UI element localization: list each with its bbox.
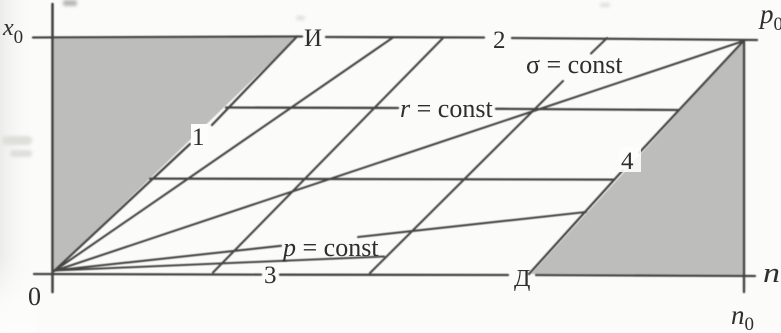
left margin bottom white fade (0, 255, 36, 333)
svg-text:p = const: p = const (281, 233, 379, 262)
svg-text:n: n (763, 257, 780, 289)
top edge segment right of 2 (512, 38, 757, 40)
svg-text:4: 4 (621, 148, 634, 175)
bottom n axis segment between 3 and Д (280, 274, 508, 277)
white patch behind point label 4 (619, 147, 641, 172)
svg-text:r = const: r = const (400, 94, 493, 123)
horizontal r = const line right of label (496, 109, 679, 110)
horizontal r = const line left of label (226, 106, 398, 109)
svg-text:3: 3 (264, 262, 277, 289)
fan line 0 to p0 corner (sigma = const) (54, 42, 742, 272)
left parallelogram edge 0-И lower part (below point 1) (54, 144, 190, 271)
svg-text:И: И (304, 25, 322, 52)
bottom n axis segment right of Д (536, 275, 755, 276)
right parallelogram edge Д-p0 lower part (below point 4) (529, 170, 623, 274)
faint ghost print-through in left margin (2, 0, 610, 157)
vertical x axis (51, 4, 54, 292)
shaded region left (between x axis and line 0-И) (53, 37, 298, 271)
top edge x0-p0 segment left of И (33, 37, 302, 38)
fan line shallow lowest (54, 257, 384, 271)
parallel line through sigma label, upper part (591, 38, 607, 54)
bottom n axis segment left of origin tick to point 3 (34, 273, 261, 276)
fan line 0 to top edge (through point 1 area) (54, 38, 393, 272)
horizontal x=const line lower (150, 179, 614, 180)
parallel line through sigma label, lower part (370, 81, 563, 273)
svg-text:0: 0 (28, 282, 41, 311)
svg-text:Д: Д (514, 266, 530, 292)
fan line p = const right segment to edge (358, 212, 586, 237)
fan line p = const left segment from 0 (54, 246, 281, 271)
left parallelogram edge 0-И upper part (above point 1) (212, 37, 297, 126)
svg-text:2: 2 (493, 27, 506, 54)
shaded region right (between line Д-p0 and n axis) (531, 42, 745, 275)
right vertical edge at n0 (743, 41, 745, 292)
white patch behind point label 1 (191, 124, 208, 147)
svg-text:σ = const: σ = const (526, 50, 623, 79)
top edge segment between И and 2 (326, 36, 484, 39)
svg-text:1: 1 (192, 124, 205, 151)
left margin shading (0, 0, 34, 333)
right parallelogram edge Д-p0 upper part (above point 4) (639, 42, 743, 154)
parallel line 3'-2' lower (213, 38, 443, 273)
